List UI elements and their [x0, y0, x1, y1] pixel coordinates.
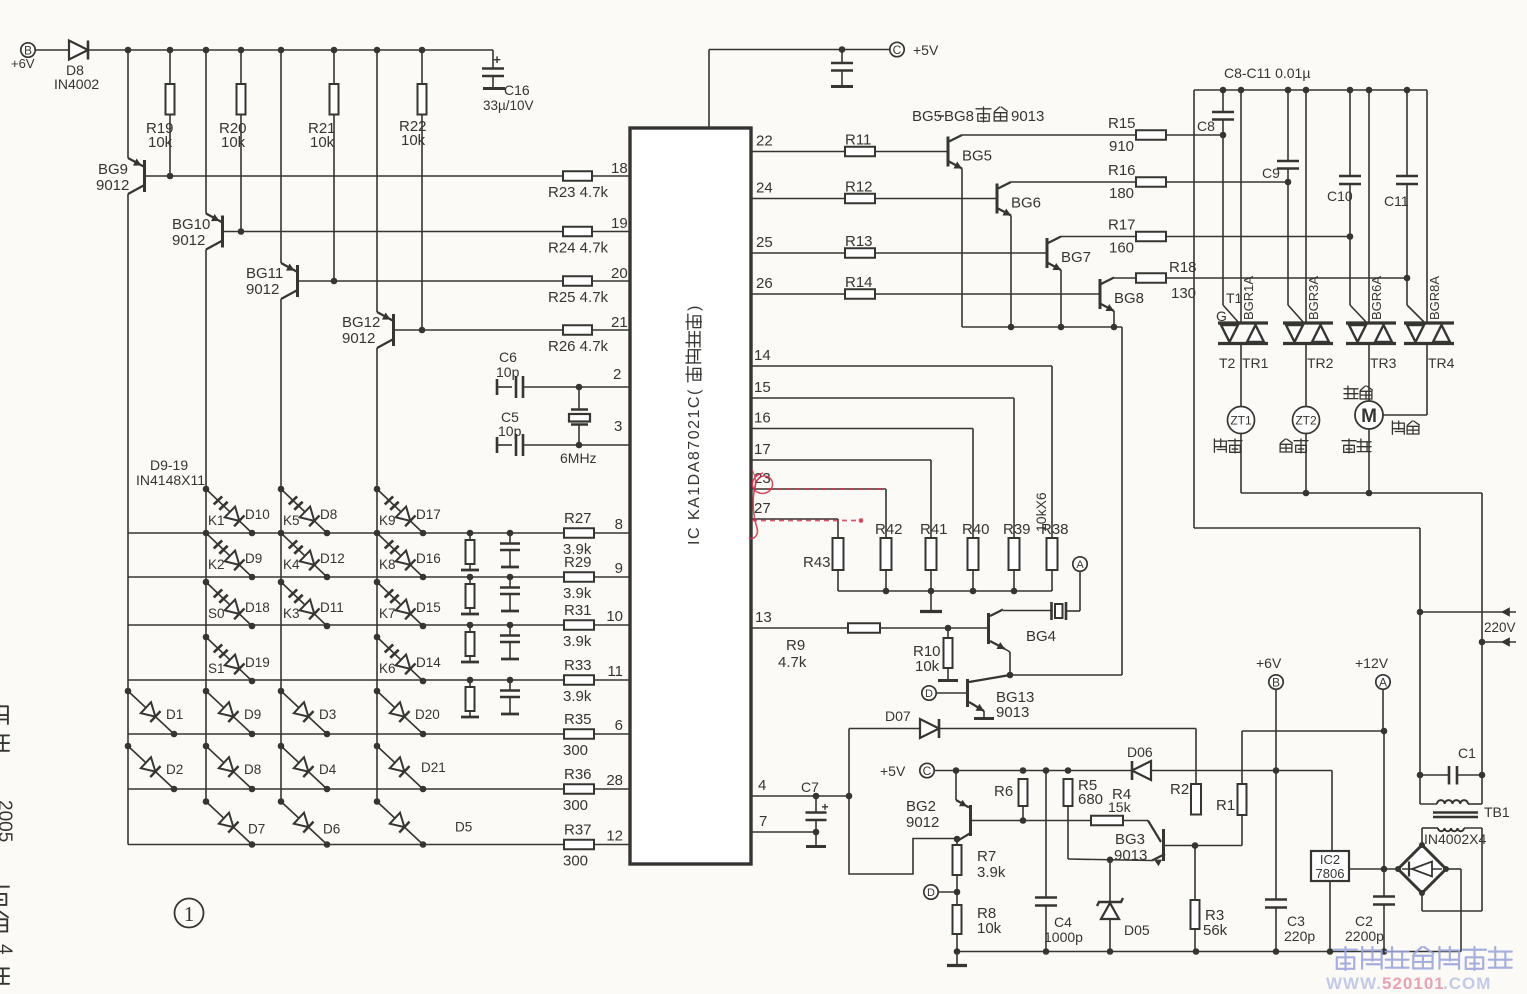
svg-text:10k: 10k [310, 134, 335, 151]
svg-text:D8: D8 [244, 762, 261, 777]
svg-text:13: 13 [755, 609, 772, 626]
annotation red dashes pin27 row [752, 520, 862, 522]
resistor R36 300 [564, 784, 594, 794]
ground below C7 [815, 832, 817, 845]
svg-text:10p: 10p [496, 364, 520, 380]
wire row pin 26 [751, 293, 845, 295]
svg-text:K1: K1 [208, 513, 225, 528]
svg-text:S1: S1 [208, 661, 225, 676]
svg-text:+: + [821, 800, 828, 814]
stub capacitor row 4 [507, 677, 514, 684]
svg-text:9012: 9012 [96, 177, 129, 194]
svg-text:9013: 9013 [1114, 847, 1147, 864]
svg-text:4: 4 [758, 777, 766, 794]
svg-text:M: M [1361, 406, 1377, 427]
svg-text:BG8: BG8 [944, 108, 974, 125]
key S0 with diode D18 [203, 579, 210, 586]
transistor BG9 9012 [127, 50, 129, 158]
wire column K1 (BG9 collector) [127, 194, 129, 845]
wire BG2 base to R4 [972, 820, 1091, 822]
svg-text:D10: D10 [245, 507, 270, 522]
resistor R9 4.7k [848, 623, 880, 633]
svg-text:C1: C1 [1458, 745, 1476, 761]
wire BG3 collector node [1192, 842, 1199, 849]
diode D5 [374, 798, 381, 805]
key S1 with diode D19 [203, 634, 210, 641]
svg-text:D: D [927, 887, 935, 899]
wire pin4 L-path to BG2 collector [849, 796, 957, 874]
wire matrix row 2 to pin 9 [128, 576, 564, 578]
resistor R16 180 [1136, 177, 1166, 187]
key K5 with diode D8 [278, 486, 285, 493]
svg-text:D: D [925, 688, 933, 700]
stub capacitor row 1 [507, 530, 514, 537]
svg-text:BG8: BG8 [1114, 290, 1144, 307]
svg-text:10kX6: 10kX6 [1033, 492, 1049, 532]
diode D9 [203, 688, 210, 695]
svg-text:9: 9 [615, 560, 623, 577]
wire column K2 (BG10 collector) [205, 250, 207, 803]
wire B column [1275, 689, 1277, 899]
resistor R39 [1009, 538, 1020, 570]
svg-text:6MHz: 6MHz [560, 450, 597, 466]
diode D2 [125, 743, 132, 750]
svg-text:220V: 220V [1484, 620, 1516, 635]
stub resistor row 2 [467, 574, 474, 581]
capacitor C7 electrolytic [815, 796, 817, 813]
svg-text:2005: 2005 [0, 800, 15, 842]
junction dots +6V rail [125, 47, 132, 54]
svg-text:): ) [686, 306, 703, 311]
transformer TB1 secondary [1438, 828, 1464, 831]
svg-text:D9-19: D9-19 [150, 457, 188, 473]
wire D07 to R2 [939, 728, 1196, 730]
svg-text:19: 19 [611, 215, 628, 232]
svg-text:910: 910 [1109, 138, 1134, 155]
svg-text:9012: 9012 [906, 814, 939, 831]
resistor R20 10k [240, 50, 242, 84]
wire TR4 gate [1407, 305, 1425, 323]
svg-text:300: 300 [563, 742, 588, 759]
svg-text:R23 4.7k: R23 4.7k [548, 184, 609, 201]
svg-text:ZT1: ZT1 [1230, 413, 1252, 427]
svg-text:10k: 10k [977, 920, 1002, 937]
wire triac main column x=1306 [1305, 90, 1307, 322]
svg-text:R31: R31 [564, 602, 592, 619]
transistor BG12 9012 [376, 50, 378, 312]
svg-text:K6: K6 [379, 661, 396, 676]
diode D3 [278, 688, 285, 695]
capacitor C16 electrolytic [492, 50, 494, 69]
svg-text:300: 300 [563, 797, 588, 814]
svg-text:15: 15 [754, 379, 771, 396]
svg-text:R29: R29 [564, 554, 592, 571]
junction dot +5V cap [839, 46, 846, 53]
transistor BG4 [987, 613, 990, 644]
svg-text:D7: D7 [248, 822, 265, 837]
IC2 7806 box [1311, 851, 1349, 881]
svg-text:D06: D06 [1127, 744, 1153, 760]
key K2 with diode D9 [203, 530, 210, 537]
wire pin 15 step [751, 397, 1014, 399]
diode D4 [278, 743, 285, 750]
svg-text:R16: R16 [1108, 162, 1136, 179]
resistor R26 4.7k [563, 325, 592, 335]
wire pin2 row [523, 386, 630, 388]
svg-text:D8: D8 [320, 507, 337, 522]
svg-text:21: 21 [611, 314, 628, 331]
svg-text:R36: R36 [564, 766, 592, 783]
wire R41 to bus [930, 570, 932, 591]
svg-text:20: 20 [611, 265, 628, 282]
svg-text:130: 130 [1171, 285, 1196, 302]
svg-text:R26 4.7k: R26 4.7k [548, 338, 609, 355]
wire triac main column x=1427 [1426, 90, 1428, 322]
wire triac main column x=1241 [1240, 90, 1242, 322]
resistor R21 10k [333, 50, 335, 84]
svg-text:BGR1A: BGR1A [1241, 276, 1256, 320]
svg-text:R24 4.7k: R24 4.7k [548, 240, 609, 257]
crystal 6MHz [578, 387, 580, 409]
terminal 220V line1 [1420, 611, 1516, 613]
svg-text:BGR8A: BGR8A [1427, 276, 1442, 320]
svg-text:WWW.: WWW. [1326, 974, 1382, 993]
svg-text:C8-C11 0.01µ: C8-C11 0.01µ [1224, 65, 1310, 81]
svg-text:D2: D2 [166, 762, 183, 777]
wire secondary right loop [1481, 828, 1483, 911]
svg-text:C11: C11 [1384, 193, 1409, 209]
svg-text:10p: 10p [498, 423, 522, 439]
resistor R24 4.7k [563, 227, 592, 237]
svg-text:D21: D21 [421, 760, 446, 775]
resistor R33 3.9k [564, 675, 594, 685]
wire secondary left to bridge [1421, 828, 1423, 844]
wire BG4 collector to buzzer [1003, 610, 1051, 612]
svg-text:BG11: BG11 [246, 265, 283, 282]
svg-text:D16: D16 [416, 551, 441, 566]
key K7 with diode D15 [374, 579, 381, 586]
stub capacitor row 3 [507, 622, 514, 629]
wire TR3 gate [1350, 305, 1367, 323]
zener D05 [1109, 859, 1111, 902]
wire R40 to bus [972, 570, 974, 591]
IC U1 label IC KA1DA87021C(microprocessor) [686, 306, 703, 545]
wire pin 17 step [751, 459, 931, 461]
wire A column [1382, 689, 1384, 731]
resistor R37 300 [564, 840, 594, 850]
transistor BG3 9013 [1162, 829, 1165, 861]
svg-text:D1: D1 [166, 707, 183, 722]
svg-text:D6: D6 [323, 822, 340, 837]
diode D8 [203, 743, 210, 750]
resistor R7 3.9k [953, 845, 962, 875]
svg-text:TB1: TB1 [1484, 804, 1510, 820]
wire pin 14 step [751, 365, 1052, 367]
svg-text:8: 8 [615, 516, 623, 533]
resistor R14 [845, 289, 875, 299]
svg-text:R18: R18 [1169, 259, 1197, 276]
svg-text:D5: D5 [455, 820, 472, 835]
svg-text:11: 11 [607, 663, 623, 680]
svg-text:9012: 9012 [246, 281, 279, 298]
resistor R40 [968, 538, 979, 570]
wire D06 to IC2 top [1151, 770, 1332, 772]
svg-text:R7: R7 [977, 848, 996, 865]
svg-text:BG7: BG7 [1061, 249, 1091, 266]
svg-text:12: 12 [606, 828, 623, 845]
svg-text:R13: R13 [845, 233, 873, 250]
svg-text:C2: C2 [1355, 913, 1373, 929]
svg-text:6: 6 [615, 717, 623, 734]
svg-text:D11: D11 [320, 600, 344, 615]
resistor R6 [1019, 779, 1028, 806]
transformer TB1 core [1433, 811, 1478, 814]
capacitor C4 1000p [1045, 771, 1047, 898]
wire R5 to BG3 emitter [1068, 859, 1152, 861]
transistor BG11 9012 [280, 50, 282, 263]
wire pin4 up to D07 [848, 729, 850, 797]
label 10kX6 [1033, 492, 1049, 532]
wire BG7 emitter drop [1060, 270, 1062, 327]
wire pin7 row [751, 831, 816, 833]
svg-text:16: 16 [754, 410, 771, 427]
svg-text:D18: D18 [245, 600, 270, 615]
svg-text:10: 10 [606, 608, 623, 625]
wire +5V distribution [934, 770, 1132, 772]
wire row pin 24 [751, 198, 845, 200]
svg-text:TR1: TR1 [1242, 355, 1269, 371]
ground bus [930, 591, 932, 610]
svg-text:C7: C7 [801, 779, 819, 795]
svg-text:B: B [1272, 675, 1280, 689]
svg-text:R27: R27 [564, 510, 592, 527]
svg-text:26: 26 [756, 275, 773, 292]
diode D7 [203, 798, 210, 805]
wire row pin 25 [751, 252, 845, 254]
left margin caption [0, 703, 8, 724]
resistor R4 15k [1091, 816, 1123, 826]
svg-text:T2: T2 [1219, 355, 1236, 371]
svg-text:9013: 9013 [1011, 108, 1044, 125]
wire R9 to BG4 base [880, 627, 987, 629]
wire bridge minus to rail [1446, 868, 1461, 870]
svg-text:BG10: BG10 [172, 216, 210, 233]
svg-text:4.7k: 4.7k [778, 654, 807, 671]
wire triac main column x=1369 [1368, 90, 1370, 322]
resistor R35 300 [564, 729, 594, 739]
wire pin3 row [523, 444, 630, 446]
svg-text:10k: 10k [221, 134, 246, 151]
svg-text:K5: K5 [283, 513, 300, 528]
transistor BG6 9013 [996, 184, 999, 214]
transistor BG2 9012 [955, 771, 957, 801]
wire pin 27 step [751, 518, 838, 520]
svg-text:28: 28 [606, 772, 623, 789]
wire column K4 (BG12 collector) [376, 348, 378, 802]
svg-text:+12V: +12V [1355, 655, 1389, 671]
svg-text:D05: D05 [1124, 922, 1150, 938]
wire BG8 emitter drop [1113, 311, 1115, 327]
svg-text:R42: R42 [875, 521, 903, 538]
diode D1 [125, 688, 132, 695]
svg-text:1: 1 [184, 902, 195, 926]
svg-text:4: 4 [0, 944, 15, 955]
label circled 1 [175, 899, 204, 928]
svg-text:D9: D9 [244, 707, 261, 722]
svg-text:160: 160 [1109, 240, 1134, 257]
svg-text:R15: R15 [1108, 115, 1136, 132]
wire R42 to bus [885, 570, 887, 591]
stub resistor row 1 [467, 530, 474, 537]
load ZT1 inlet valve [1240, 345, 1242, 407]
svg-text:+5V: +5V [880, 763, 906, 779]
wire BG5 emitter drop [961, 169, 963, 328]
wire BG6 emitter drop [1010, 216, 1012, 328]
svg-text:+6V: +6V [1256, 655, 1282, 671]
svg-text:BG5: BG5 [962, 148, 992, 165]
wire pin13 row [751, 627, 848, 629]
svg-text:7806: 7806 [1316, 866, 1345, 881]
transistor BG13 9013 [922, 686, 936, 700]
svg-text:3.9k: 3.9k [563, 585, 592, 602]
transformer TB1 primary [1420, 803, 1437, 805]
ground symbol rail [956, 952, 958, 965]
svg-text:C16: C16 [504, 82, 530, 98]
wire IC top supply [708, 50, 710, 129]
svg-text:D4: D4 [319, 762, 337, 777]
svg-text:R12: R12 [845, 179, 873, 196]
svg-text:C4: C4 [1054, 914, 1072, 930]
resistor R23 4.7k [563, 171, 592, 181]
svg-text:24: 24 [756, 180, 773, 197]
wire bus to 220V right [1481, 493, 1483, 642]
capacitor C2 2200p [1373, 895, 1395, 898]
svg-text:9012: 9012 [172, 232, 205, 249]
wire matrix row 4 to pin 11 [128, 679, 564, 681]
svg-text:R25 4.7k: R25 4.7k [548, 289, 609, 306]
svg-text:C8: C8 [1197, 118, 1215, 134]
triac TR1 [1218, 321, 1268, 324]
svg-text:R17: R17 [1108, 217, 1136, 234]
capacitor C8 [1222, 90, 1224, 112]
wire TR2 gate [1288, 305, 1304, 323]
svg-text:BG5: BG5 [912, 108, 942, 125]
resistor R29 3.9k [564, 572, 594, 582]
wire row pin 21 [394, 329, 564, 331]
svg-text:.COM: .COM [1443, 974, 1491, 993]
wire BG7 collector [1061, 236, 1136, 238]
capacitor C10 [1349, 90, 1351, 176]
svg-text:56k: 56k [1203, 922, 1228, 939]
IC U1 KA1DA87021C body [630, 128, 751, 864]
svg-text:BGR3A: BGR3A [1306, 276, 1321, 320]
wire row pin 19 [223, 231, 564, 233]
svg-text:G: G [1216, 308, 1227, 324]
capacitor C5 10p [496, 437, 499, 453]
resistor R2 [1191, 784, 1201, 815]
wire BG5 collector [962, 134, 1136, 136]
svg-text:10k: 10k [148, 134, 173, 151]
wire matrix row 3 to pin 10 [128, 624, 564, 626]
svg-text:TR4: TR4 [1428, 355, 1455, 371]
svg-text:R39: R39 [1003, 521, 1031, 538]
capacitor C6 10p [496, 379, 499, 395]
svg-text:3.9k: 3.9k [563, 633, 592, 650]
transistor BG8 9013 [1099, 279, 1102, 309]
svg-text:K9: K9 [379, 513, 396, 528]
svg-text:D17: D17 [416, 507, 441, 522]
stub resistor row 3 [467, 622, 474, 629]
resistor R38 [1047, 538, 1058, 570]
svg-text:R35: R35 [564, 711, 592, 728]
wire BG6 collector [1011, 181, 1136, 183]
wire pin4 row [751, 795, 849, 797]
resistor R5 680 [1064, 779, 1073, 806]
wire column K3 (BG11 collector) [280, 299, 282, 802]
wire load bottom bus [1241, 492, 1482, 494]
capacitor +5V bypass [841, 50, 843, 64]
svg-text:R9: R9 [786, 637, 805, 654]
svg-text:+: + [493, 52, 501, 67]
node B +6V terminal [21, 43, 35, 57]
svg-text:BG6: BG6 [1011, 195, 1041, 212]
resistor R42 [881, 538, 892, 570]
svg-text:18: 18 [611, 160, 628, 177]
wire B to D8 [35, 49, 69, 51]
node A terminal buzzer [1079, 571, 1081, 611]
svg-text:2200p: 2200p [1345, 928, 1384, 944]
resistor R19 10k [169, 50, 171, 84]
svg-text:300: 300 [563, 853, 588, 870]
resistor R43 [833, 538, 844, 570]
svg-text:R33: R33 [564, 657, 592, 674]
capacitor C3 220p [1265, 898, 1287, 901]
wire R7 to R8 [956, 875, 958, 905]
buzzer HTD [1050, 602, 1053, 620]
junction dots base rows [167, 173, 174, 180]
wire pin 16 step [751, 428, 973, 430]
wire matrix row 6 to pin 28 [128, 788, 564, 790]
triac TR3 [1346, 321, 1396, 324]
svg-text:R41: R41 [920, 521, 948, 538]
diode D6 [278, 798, 285, 805]
stub resistor row 4 [467, 677, 474, 684]
resistor R41 [926, 538, 937, 570]
svg-text:D19: D19 [245, 655, 270, 670]
svg-text:1000p: 1000p [1044, 929, 1083, 945]
svg-text:25: 25 [756, 234, 773, 251]
resistor R18 130 [1136, 273, 1166, 283]
resistor R17 160 [1136, 232, 1166, 242]
svg-text:K2: K2 [208, 557, 225, 572]
svg-text:S0: S0 [208, 606, 225, 621]
svg-text:220p: 220p [1284, 928, 1315, 944]
svg-text:BG9: BG9 [98, 161, 128, 178]
resistor R8 10k [953, 905, 962, 934]
svg-text:+5V: +5V [913, 42, 939, 58]
label BGR6A [1369, 276, 1384, 320]
capacitor C11 [1406, 90, 1408, 176]
resistor R13 [845, 248, 875, 258]
label BGR1A [1241, 276, 1256, 320]
wire TR4 to motor [1426, 345, 1428, 416]
svg-text:3: 3 [614, 418, 622, 435]
svg-text:10k: 10k [915, 658, 940, 675]
wire BG4 emitter [1005, 649, 1010, 652]
resistor R22 10k [421, 50, 423, 84]
capacitor C9 [1287, 90, 1289, 161]
wire R39 to bus [1013, 570, 1015, 591]
